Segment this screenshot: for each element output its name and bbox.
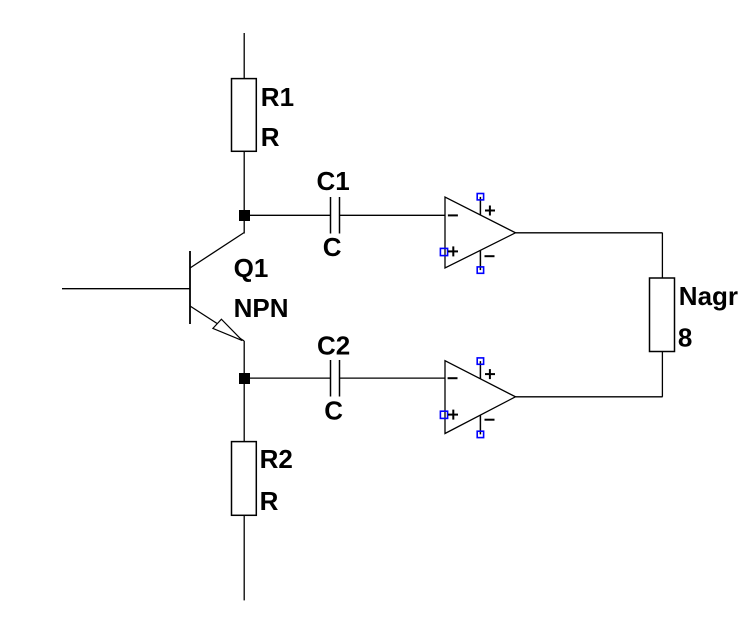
resistor R1 bbox=[232, 79, 257, 152]
op-amp U2 positive supply pin bbox=[477, 358, 495, 379]
wire Nagr bottom bbox=[661, 352, 663, 397]
svg-text:C2: C2 bbox=[317, 330, 350, 360]
wire R1 bottom to collector node bbox=[243, 151, 245, 234]
wire emitter node to C2 bbox=[244, 377, 331, 379]
svg-text:Q1: Q1 bbox=[234, 253, 269, 283]
svg-text:C: C bbox=[323, 232, 342, 262]
op-amp U1 inverting input minus bbox=[448, 214, 458, 216]
svg-text:R: R bbox=[260, 486, 279, 516]
op-amp U1 non-inverting input plus pin bbox=[440, 246, 458, 256]
op-amp U2 inverting input minus bbox=[448, 377, 458, 379]
resistor Nagr bbox=[650, 278, 675, 352]
svg-text:C1: C1 bbox=[317, 166, 350, 196]
svg-text:R: R bbox=[261, 122, 280, 152]
svg-text:C: C bbox=[324, 396, 343, 426]
svg-text:NPN: NPN bbox=[234, 293, 289, 323]
wire C1 to op-amp U1 inverting input bbox=[340, 214, 446, 216]
node emitter junction bbox=[239, 373, 250, 384]
wire U2 output bbox=[516, 396, 663, 398]
wire collector node to C1 bbox=[244, 214, 331, 216]
op-amp U2 bbox=[445, 361, 516, 434]
svg-text:R1: R1 bbox=[261, 82, 294, 112]
wire R1 top lead bbox=[243, 33, 245, 78]
node collector junction bbox=[239, 210, 250, 221]
transistor Q1 bbox=[190, 233, 244, 342]
op-amp U1 positive supply pin bbox=[477, 194, 495, 216]
capacitor C2 bbox=[331, 360, 340, 397]
resistor R2 bbox=[232, 442, 257, 516]
svg-text:8: 8 bbox=[678, 323, 692, 353]
op-amp U2 negative supply pin bbox=[477, 415, 494, 437]
wire down to Nagr bbox=[661, 233, 663, 278]
wire U1 output bbox=[516, 232, 663, 234]
wire C2 to op-amp U2 inverting input bbox=[340, 377, 446, 379]
op-amp U1 negative supply pin bbox=[477, 251, 494, 274]
capacitor C1 bbox=[331, 197, 340, 234]
wire base lead bbox=[62, 288, 190, 290]
op-amp U2 non-inverting input plus pin bbox=[440, 410, 458, 420]
op-amp U1 bbox=[445, 197, 516, 268]
svg-text:R2: R2 bbox=[260, 444, 293, 474]
wire R2 bottom lead bbox=[243, 515, 245, 600]
wire emitter to emitter node and R2 bbox=[243, 341, 245, 442]
svg-text:Nagr: Nagr bbox=[679, 281, 738, 311]
